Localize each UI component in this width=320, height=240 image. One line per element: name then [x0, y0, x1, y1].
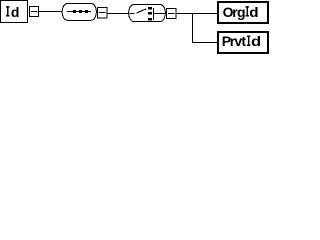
svg-text:d: d — [249, 4, 258, 20]
expand handle after sequence — [98, 8, 108, 19]
element box PrvtId — [218, 32, 268, 53]
svg-text:t: t — [241, 33, 246, 49]
expand handle after choice — [167, 9, 177, 19]
wire Id handle to sequence — [39, 11, 63, 13]
wire choice handle to OrgId — [177, 13, 218, 15]
svg-text:g: g — [237, 4, 246, 20]
wire sequence handle to choice — [108, 13, 130, 15]
svg-text:d: d — [251, 33, 261, 49]
element box Id — [1, 1, 28, 23]
sequence compositor — [62, 4, 96, 21]
wire vertical branch — [192, 13, 194, 43]
svg-text:d: d — [11, 4, 20, 20]
element box OrgId — [218, 2, 268, 23]
choice compositor — [129, 5, 166, 22]
wire branch to PrvtId — [192, 42, 217, 44]
expand handle after Id — [30, 7, 39, 17]
